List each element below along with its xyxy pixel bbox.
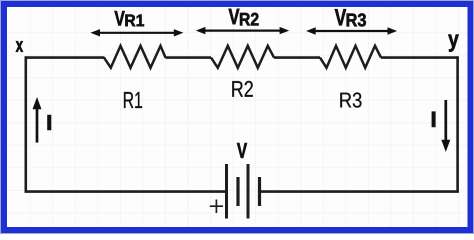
voltage arrow VR2 (double-headed) [196,27,289,34]
wire: R3 to node y (top-right segment) [381,56,458,59]
label I (right) [432,112,435,127]
battery polarity + sign [210,200,223,214]
label VR3 [335,9,366,26]
label V (battery voltage) [237,143,247,158]
label VR2 [229,9,259,26]
battery V (two cells: long + plates, short - plates) [227,164,260,219]
label R1 [124,92,142,108]
voltage arrow VR3 (double-headed) [306,27,397,34]
wire: node x to R1 (top-left segment) [26,56,105,59]
label VR1 [115,11,145,26]
wire: battery - terminal along bottom and up right side to node y [261,56,458,191]
node y [448,35,459,52]
current arrow I (left side, pointing up) [33,97,42,143]
wire: R1 to R2 [166,56,212,59]
label R3 [340,93,361,108]
label R2 [232,81,253,97]
node x [16,41,23,52]
resistor R3 [320,46,381,68]
current arrow I (right side, pointing down) [441,100,450,152]
voltage arrow VR1 (double-headed) [90,29,183,36]
resistor R2 [211,46,274,68]
wire: left branch from node x down to battery + terminal [26,56,226,191]
label I (left) [48,115,52,130]
resistor R1 [104,46,166,68]
wire: R2 to R3 [274,56,320,59]
